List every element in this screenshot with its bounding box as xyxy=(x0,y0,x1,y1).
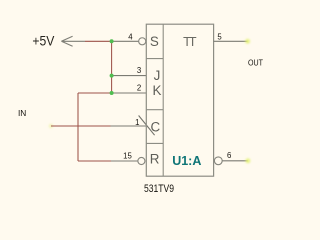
dynamic clock slash on C pin xyxy=(139,116,155,136)
svg-text:S: S xyxy=(150,34,159,49)
pin 15 stub (R input) xyxy=(111,160,138,162)
wire +5V to junction A xyxy=(85,40,112,42)
svg-text:6: 6 xyxy=(227,151,231,160)
wire IN to C pin xyxy=(51,125,111,127)
svg-text:4: 4 xyxy=(128,32,133,41)
inversion bubble on S pin xyxy=(139,38,146,45)
divider below K section xyxy=(146,109,163,111)
svg-text:OUT: OUT xyxy=(248,58,263,68)
pin 3 stub (J input) xyxy=(112,75,147,77)
junction node at J row xyxy=(110,74,114,78)
pin 1 stub (C clock input) xyxy=(111,125,147,127)
pin 2 stub (K input) xyxy=(112,92,147,94)
wire K row left segment xyxy=(78,92,112,94)
svg-text:5: 5 xyxy=(217,32,222,41)
inversion bubble on R pin xyxy=(138,157,145,164)
svg-text:531TV9: 531TV9 xyxy=(144,183,174,195)
divider below C section xyxy=(146,142,163,144)
terminal dot pin 5 xyxy=(245,39,250,44)
inversion bubble on pin 6 (Q-bar output) xyxy=(214,157,222,165)
wire vertical bus from junction A down to K row xyxy=(111,41,113,93)
pin 4 stub (S input) xyxy=(112,40,139,42)
junction node at K row xyxy=(110,91,114,95)
svg-text:U1:A: U1:A xyxy=(172,153,202,168)
svg-text:K: K xyxy=(153,83,162,98)
terminal dot IN xyxy=(49,124,53,128)
svg-text:J: J xyxy=(154,68,161,83)
pin 5 stub (Q output) xyxy=(214,40,248,42)
inner label column divider xyxy=(162,24,164,176)
svg-text:TT: TT xyxy=(183,34,197,49)
power terminal +5V arrow xyxy=(61,36,85,46)
svg-text:IN: IN xyxy=(18,108,26,118)
pin 6 stub xyxy=(222,160,248,162)
svg-text:1: 1 xyxy=(135,118,139,127)
svg-text:C: C xyxy=(150,119,160,134)
svg-text:2: 2 xyxy=(137,84,141,93)
svg-text:3: 3 xyxy=(137,66,141,75)
svg-text:R: R xyxy=(150,152,160,167)
junction node at +5V row xyxy=(110,39,114,43)
wire vertical from K row down to R row xyxy=(77,93,79,161)
divider below S section xyxy=(146,58,163,60)
svg-text:+5V: +5V xyxy=(32,33,54,48)
terminal dot pin 6 xyxy=(246,158,251,163)
op-amp U1 body outline (531TV9 flip-flop) xyxy=(146,24,213,176)
wire R row left segment xyxy=(78,160,111,162)
svg-text:15: 15 xyxy=(123,151,132,160)
